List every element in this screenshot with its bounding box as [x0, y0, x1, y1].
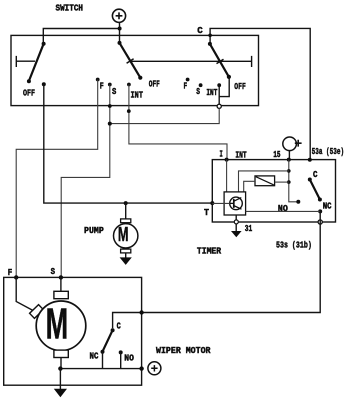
wire motor to ground [59, 369, 61, 389]
svg-text:T: T [204, 207, 209, 218]
park switch lever [103, 330, 113, 351]
junction dot C on box edge [208, 34, 212, 38]
pump motor M [114, 203, 138, 253]
svg-text:INT: INT [131, 90, 144, 101]
wire INT-right down-left to S node [112, 108, 220, 123]
timer box [212, 160, 335, 222]
pump ground [120, 253, 132, 265]
contact NC (timer) [318, 209, 322, 213]
terminal 53s circle (timer bottom) [318, 220, 322, 224]
svg-text:S: S [196, 86, 200, 97]
wire F contact to motor F [16, 80, 98, 277]
terminal dot INT-middle below box edge [127, 109, 131, 113]
wire SW3 lever to INT contact [219, 78, 229, 105]
contact NO (timer) [296, 200, 300, 204]
svg-text:NO: NO [124, 353, 134, 364]
wire washer feed (SW1 contact to pump and timer T) [44, 84, 213, 203]
svg-text:S: S [51, 266, 56, 277]
svg-text:INT: INT [206, 87, 217, 98]
svg-text:15: 15 [273, 149, 281, 160]
junction dot motor bottom [58, 366, 62, 370]
SW3 tick [217, 59, 224, 63]
svg-text:31: 31 [245, 223, 253, 234]
wire I to transistor [226, 160, 228, 192]
contact NC (park) [101, 350, 105, 354]
battery + terminal B1 (top) [112, 9, 125, 22]
wire Q1 to ground 31 [235, 215, 237, 231]
wire NC/53s to wiper switch [142, 211, 321, 312]
terminal F (motor) [14, 275, 18, 279]
svg-text:53s (31b): 53s (31b) [276, 240, 312, 251]
wire top feed [43, 22, 119, 43]
ground (timer) [231, 231, 242, 237]
terminal S (motor) [59, 275, 63, 279]
transistor Q1 [230, 197, 243, 210]
relay lever (timer) [310, 180, 320, 200]
wire emitter to NC [246, 210, 321, 212]
contact INT (middle group) [127, 83, 131, 87]
svg-text:53a (53e): 53a (53e) [312, 146, 345, 157]
svg-text:C: C [117, 320, 122, 331]
svg-text:F: F [8, 267, 13, 278]
svg-text:NC: NC [323, 201, 332, 212]
SW1 lower contact [42, 82, 46, 86]
contact S (middle group) [108, 83, 112, 87]
junction dot S-INT node [108, 122, 112, 126]
svg-text:INT: INT [235, 149, 247, 160]
junction dot 15a [287, 169, 291, 173]
svg-text:M: M [118, 224, 129, 246]
wire relay left to transistor [244, 181, 255, 192]
svg-text:C: C [313, 169, 318, 180]
svg-text:OFF: OFF [234, 81, 246, 92]
svg-text:TIMER: TIMER [197, 245, 222, 256]
wiper motor M1 [16, 277, 86, 368]
wire relay right to 15 [275, 181, 289, 183]
svg-text:OFF: OFF [149, 78, 160, 89]
contact INT (right group) [217, 83, 221, 87]
svg-text:M: M [46, 300, 69, 348]
wire C to outer right [210, 28, 310, 159]
svg-text:F: F [184, 80, 188, 91]
svg-text:SWITCH: SWITCH [56, 2, 84, 13]
svg-text:F: F [100, 80, 104, 91]
ground (motor) [54, 389, 67, 398]
wire upper loop to transistor [239, 171, 289, 192]
junction dot rail right [139, 366, 143, 370]
wire 15 down with branches [289, 160, 297, 202]
contact F (middle group) [96, 78, 100, 82]
terminal circle INT (right, box bottom) [217, 104, 221, 108]
relay K1 coil [255, 176, 275, 186]
wire motor bottom rail [60, 368, 142, 370]
wire INT-middle to timer I [129, 85, 227, 159]
contact NO (park) [119, 350, 123, 354]
wire S contact down [61, 85, 110, 278]
SW1 linkage bar [16, 56, 35, 67]
svg-text:WIPER MOTOR: WIPER MOTOR [156, 345, 211, 356]
transistor Q1 box [224, 192, 246, 215]
motor box [4, 277, 142, 385]
SW2 tick [127, 59, 134, 63]
terminal 15 [287, 158, 291, 162]
battery + terminal B2 (timer) [283, 137, 302, 158]
contact S (right group) [199, 83, 203, 87]
junction dot 15b [287, 180, 291, 184]
svg-text:S: S [112, 86, 117, 97]
switch lever SW3 (right) [208, 42, 231, 79]
switch lever SW2 (middle) [118, 41, 143, 80]
junction dot wire-timer on box edge [139, 310, 143, 314]
junction dot S at box bottom [108, 104, 112, 108]
svg-text:I: I [220, 148, 223, 159]
battery + terminal B3 (wiper) [148, 362, 161, 375]
switch box [11, 35, 259, 105]
terminal I [225, 158, 229, 162]
svg-text:OFF: OFF [23, 87, 35, 98]
svg-text:NC: NC [90, 350, 99, 361]
park switch C contact [113, 313, 142, 329]
svg-text:NO: NO [278, 203, 288, 214]
svg-text:PUMP: PUMP [84, 225, 104, 236]
terminal 53a [308, 158, 312, 162]
pump junction dot [124, 201, 128, 205]
mechanical linkage bar SW2-SW3 [130, 56, 252, 67]
terminal T [210, 201, 214, 205]
svg-text:C: C [197, 25, 203, 36]
contact F (right group) [186, 78, 190, 82]
switch lever SW1 (washer, left) [27, 42, 46, 83]
junction dot top feed [118, 27, 122, 31]
terminal 31 circle [234, 220, 238, 224]
